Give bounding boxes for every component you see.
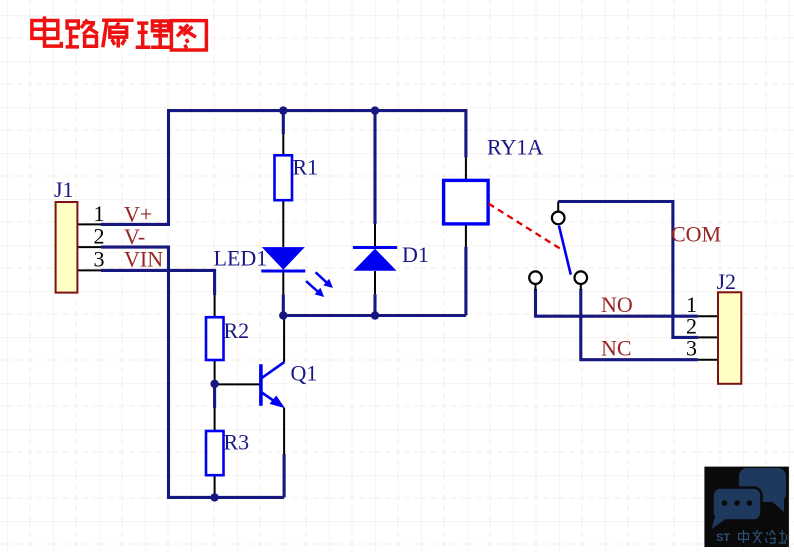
svg-text:Q1: Q1 [291, 361, 318, 386]
wire Q1 emitter to bottom wire [283, 454, 286, 497]
switch NO contact pin stub [535, 284, 537, 290]
wire switch COM to J2 pin2 [558, 202, 698, 338]
svg-text:J1: J1 [54, 177, 74, 202]
junction bottom rail / D1 [371, 311, 379, 319]
resistor R3 [206, 431, 224, 475]
R3 pin bottom [214, 475, 216, 497]
svg-text:R3: R3 [224, 430, 250, 455]
J1 pin 2 stub [77, 246, 101, 248]
J2 pin 2 stub [698, 336, 718, 338]
wire top rail to relay coil [464, 109, 467, 157]
R2 pin top [214, 295, 216, 317]
wire R2 junction to R3 [213, 384, 216, 408]
D1 anode pin (bottom) [374, 271, 376, 294]
relay coil pin top [465, 157, 467, 180]
diode D1 [353, 248, 397, 271]
svg-text:NC: NC [601, 336, 632, 361]
svg-text:V+: V+ [124, 202, 152, 227]
svg-text:V-: V- [124, 224, 145, 249]
svg-text:3: 3 [94, 247, 105, 272]
svg-text:COM: COM [671, 222, 721, 247]
svg-text:D1: D1 [402, 242, 429, 267]
connector J1 [56, 202, 78, 293]
wire LED1 cathode to bottom rail [282, 294, 285, 317]
switch blade [559, 226, 571, 275]
junction R2 / R3 / Q1 base [210, 380, 218, 388]
resistor R2 [206, 317, 224, 360]
svg-text:3: 3 [686, 336, 697, 361]
switch COM contact pin stub [557, 202, 559, 212]
transistor Q1 [261, 362, 285, 408]
junction top rail / D1 [371, 106, 379, 114]
Q1 emitter pin [283, 408, 285, 454]
relay coil pin bottom [465, 224, 467, 247]
resistor R1 [275, 155, 293, 200]
J2 pin 1 stub [698, 315, 718, 317]
svg-text:1: 1 [94, 201, 105, 226]
wire top rail [167, 109, 466, 112]
LED1 cathode pin [282, 271, 284, 294]
switch NC contact pin stub [580, 284, 582, 290]
wire D1 anode to bottom rail [373, 294, 376, 317]
R1 pin 2 / LED1 anode pin [282, 200, 284, 247]
wire bottom V- rail [167, 496, 284, 499]
wire J1 pin3 VIN to R2 [101, 270, 215, 295]
junction bottom rail / LED1 [279, 311, 287, 319]
svg-text:NO: NO [601, 292, 633, 317]
svg-text:RY1A: RY1A [487, 135, 543, 160]
svg-text:LED1: LED1 [214, 246, 268, 271]
svg-text:J2: J2 [717, 269, 737, 294]
Q1 base pin [214, 383, 261, 385]
wire relay coil to bottom rail [464, 247, 467, 316]
relay coil RY1A [444, 180, 489, 224]
forum logo watermark [704, 467, 789, 547]
wire switch NC contact to J2 pin3 [581, 289, 698, 360]
svg-text:R2: R2 [224, 318, 250, 343]
R3 pin top [214, 408, 216, 431]
wire J1 pin2 V- down left side to bottom wire [101, 247, 169, 497]
J1 pin 3 stub [77, 269, 101, 271]
switch NC contact [575, 271, 588, 284]
svg-text:R1: R1 [293, 155, 319, 180]
switch COM contact [552, 212, 565, 225]
junction bottom wire / R3 [210, 493, 218, 501]
svg-text:ST: ST [716, 532, 730, 544]
relay actuation dashed link [489, 204, 562, 250]
connector J2 [718, 292, 741, 384]
svg-text:2: 2 [94, 224, 105, 249]
wire top rail to R1 [282, 109, 285, 134]
wire J1 pin1 V+ to top rail [101, 111, 169, 225]
svg-text:VIN: VIN [124, 247, 163, 272]
Q1 collector pin [283, 316, 285, 363]
R2 pin bottom [214, 360, 216, 384]
wire bottom rail LED to relay [283, 314, 466, 317]
R1 pin 1 (top) [282, 134, 284, 155]
switch NO contact [529, 271, 542, 284]
LED LED1 [261, 247, 333, 297]
wire switch NO contact to J2 pin1 [536, 289, 698, 316]
D1 cathode pin (top) [374, 224, 376, 247]
J1 pin 1 stub [77, 223, 101, 225]
title text 电路原理图 [32, 16, 207, 50]
junction top rail / R1 [279, 106, 287, 114]
wire top rail to D1 [373, 109, 376, 224]
J2 pin 3 stub [698, 359, 718, 361]
